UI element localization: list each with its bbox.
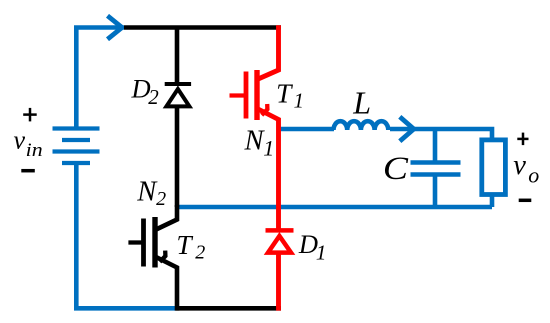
svg-text:1: 1 [316, 241, 327, 265]
svg-text:v: v [14, 125, 26, 154]
svg-text:in: in [26, 141, 43, 161]
svg-text:N: N [136, 176, 158, 207]
svg-text:N: N [244, 126, 266, 157]
svg-text:2: 2 [195, 242, 205, 264]
svg-text:L: L [352, 84, 371, 120]
svg-text:T: T [276, 79, 293, 109]
svg-text:1: 1 [263, 135, 274, 160]
svg-text:1: 1 [294, 89, 305, 113]
svg-text:2: 2 [148, 85, 159, 109]
svg-text:o: o [528, 163, 539, 188]
svg-text:T: T [176, 230, 193, 260]
svg-text:2: 2 [156, 188, 166, 210]
svg-text:v: v [513, 150, 526, 181]
svg-text:C: C [383, 151, 408, 187]
